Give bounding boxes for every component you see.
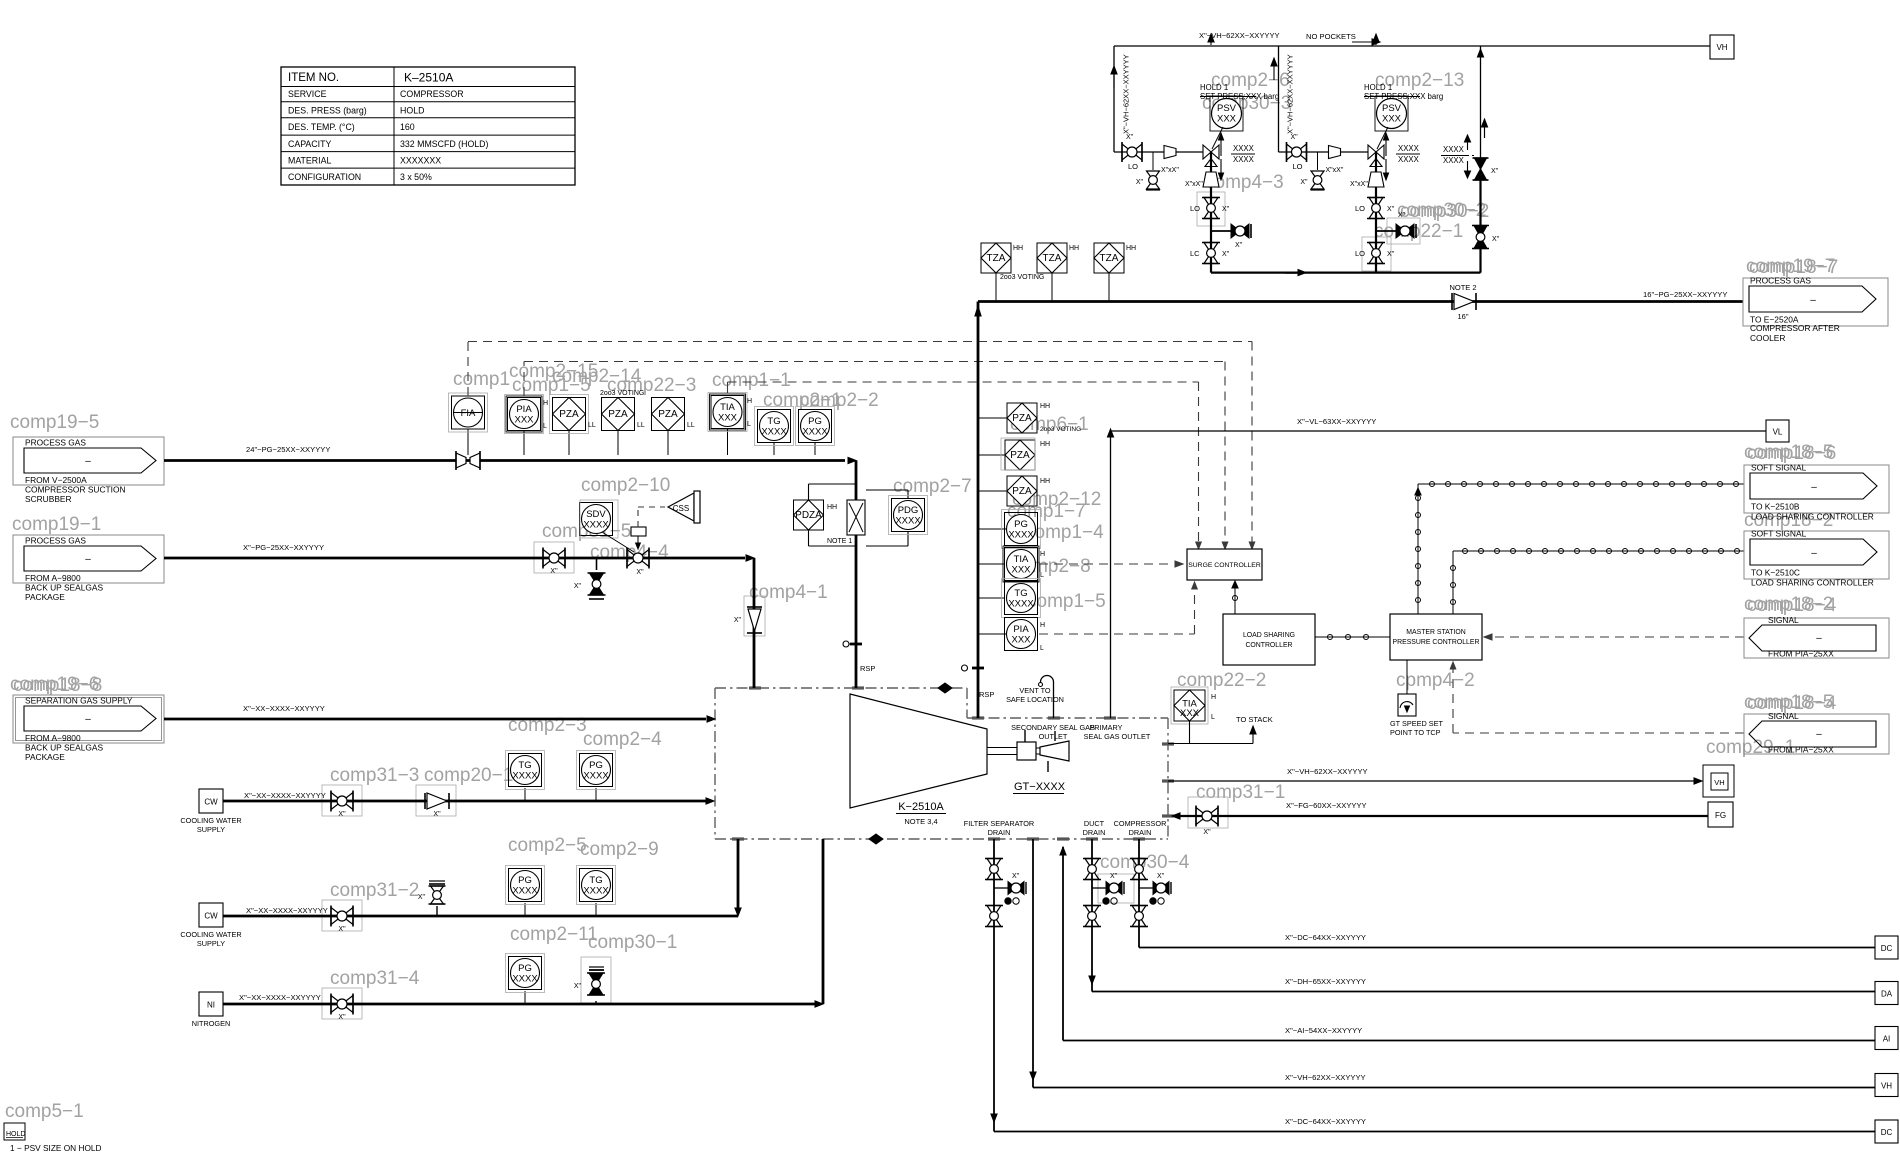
signal dashed bus line 1 FIA to surge controller	[467, 342, 469, 397]
instrument PZA HH discharge 1	[978, 417, 1008, 419]
svg-text:PZA: PZA	[608, 409, 628, 420]
svg-text:2oo3 VOTING: 2oo3 VOTING	[1040, 426, 1081, 433]
signal dashed PIA to surge controller	[1039, 633, 1195, 635]
svg-text:XXX: XXX	[1217, 114, 1237, 125]
svg-text:HH: HH	[1040, 403, 1050, 410]
svg-text:24"−PG−25XX−XXYYYY: 24"−PG−25XX−XXYYYY	[246, 445, 330, 454]
svg-text:HH: HH	[827, 504, 837, 511]
svg-text:X"−VH−62XX−XXYYYY: X"−VH−62XX−XXYYYY	[1285, 1073, 1366, 1082]
check valve 16in NOTE 2	[1451, 293, 1453, 310]
svg-text:X": X"	[550, 568, 558, 575]
NC valve comp30-1 on nitrogen stub	[595, 1001, 597, 1004]
wire 24in process gas suction line	[164, 459, 845, 462]
svg-text:comp1−4: comp1−4	[1025, 522, 1104, 543]
svg-text:PROCESS GAS: PROCESS GAS	[1750, 276, 1811, 286]
svg-text:FG: FG	[1715, 811, 1726, 820]
svg-text:–: –	[85, 456, 91, 467]
off-page connector SOFT SIGNAL TO K-2510C	[1744, 531, 1889, 579]
boundary diamond marker bottom	[869, 834, 883, 844]
instrument PG XXXX suction	[814, 442, 816, 455]
compressor K-2510A body	[850, 694, 987, 808]
svg-text:VH: VH	[1716, 43, 1727, 52]
wire VL vent line from primary seal gas outlet	[1110, 431, 1112, 718]
svg-text:K–2510A: K–2510A	[404, 71, 453, 85]
svg-text:L: L	[543, 423, 547, 430]
drain dual block valves x994	[993, 839, 995, 945]
svg-text:DUCT: DUCT	[1084, 819, 1105, 828]
svg-text:X"xX": X"xX"	[1185, 181, 1203, 188]
wire cooling water supply line 2	[223, 915, 738, 918]
instrument TG XXXX discharge	[978, 597, 1005, 599]
gas turbine GT-XXXX	[1040, 741, 1069, 761]
svg-text:LL: LL	[637, 422, 645, 429]
svg-text:X": X"	[1222, 206, 1230, 213]
utility box CW cooling water supply 1	[199, 789, 223, 813]
svg-text:SERVICE: SERVICE	[288, 89, 327, 99]
svg-text:comp5−1: comp5−1	[5, 1101, 84, 1122]
VH off-page box top right	[1710, 35, 1734, 59]
lower block globe valve on leg	[1369, 243, 1383, 254]
svg-text:SDV: SDV	[586, 509, 606, 520]
svg-text:X": X"	[1300, 179, 1308, 186]
off-page connector SIGNAL FROM PIA-25XX 2	[1744, 714, 1889, 754]
svg-text:HOLD 1: HOLD 1	[1200, 83, 1228, 92]
wire recycle header	[1211, 272, 1481, 274]
svg-text:CSS: CSS	[673, 504, 689, 513]
3-way PSV inlet valve	[1368, 145, 1376, 159]
svg-text:X"−FG−60XX−XXYYYY: X"−FG−60XX−XXYYYY	[1286, 801, 1367, 810]
svg-text:comp18−8: comp18−8	[13, 675, 102, 696]
svg-text:XXXX: XXXX	[1443, 145, 1465, 154]
FG off-page box	[1708, 802, 1733, 827]
relief valve stub on cw2	[436, 906, 438, 916]
svg-text:comp31−4: comp31−4	[330, 968, 420, 989]
signal dashed bus line 3 TIA to surge controller	[727, 382, 729, 393]
svg-text:XXXX: XXXX	[1398, 144, 1420, 153]
svg-text:TZA: TZA	[987, 253, 1006, 264]
instrument TIA XXX discharge	[978, 563, 1005, 565]
svg-text:TIA: TIA	[1014, 554, 1029, 565]
svg-text:comp4−4: comp4−4	[590, 542, 669, 563]
svg-text:1 − PSV SIZE ON HOLD: 1 − PSV SIZE ON HOLD	[10, 1143, 102, 1153]
svg-text:comp30−2: comp30−2	[1400, 201, 1489, 222]
svg-text:K−2510A: K−2510A	[898, 801, 944, 813]
drain line 2 vh	[1032, 839, 1034, 1088]
svg-text:2oo3 VOTING: 2oo3 VOTING	[600, 390, 644, 397]
svg-text:comp18−4: comp18−4	[1747, 595, 1837, 616]
svg-text:HH: HH	[1013, 245, 1023, 252]
svg-text:X"−VH−62XX−XXYYYY: X"−VH−62XX−XXYYYY	[1287, 767, 1368, 776]
svg-text:comp2−5: comp2−5	[508, 835, 587, 856]
svg-text:comp2−2: comp2−2	[800, 390, 879, 411]
svg-text:XXX: XXX	[718, 413, 738, 424]
utility box NI nitrogen	[199, 992, 223, 1016]
wire VH line from package to VH box	[1168, 780, 1694, 782]
svg-text:X"−VL−63XX−XXYYYY: X"−VL−63XX−XXYYYY	[1297, 417, 1376, 426]
svg-text:–: –	[1811, 548, 1817, 559]
svg-text:16"−PG−25XX−XXYYYY: 16"−PG−25XX−XXYYYY	[1643, 290, 1727, 299]
svg-text:XXX: XXX	[514, 415, 534, 426]
svg-text:X": X"	[1136, 179, 1144, 186]
instrument PZA 2 2oo3 voting	[617, 430, 619, 455]
annotation box comp30-4 NC valve duct drain	[1098, 874, 1134, 903]
svg-text:comp31−2: comp31−2	[330, 880, 419, 901]
svg-text:comp2−7: comp2−7	[893, 476, 972, 497]
data link MSPC riser 2 with circles	[1452, 551, 1454, 614]
right leg block globe valve	[1474, 226, 1487, 238]
svg-text:GT SPEED SET: GT SPEED SET	[1390, 719, 1444, 728]
svg-text:–: –	[1816, 729, 1822, 740]
svg-text:XXX: XXX	[1382, 114, 1402, 125]
svg-text:comp30−4: comp30−4	[1100, 852, 1190, 873]
svg-text:XXXX: XXXX	[512, 886, 538, 897]
wire seal gas drop into package	[753, 558, 756, 688]
instrument PZA HH discharge 3	[978, 490, 1008, 492]
gate valve comp31-4	[331, 996, 342, 1013]
svg-text:H: H	[1040, 551, 1045, 558]
instrument PZA 3	[667, 430, 669, 455]
instrument TG XXXX suction	[773, 442, 775, 455]
svg-text:PRESSURE CONTROLLER: PRESSURE CONTROLLER	[1393, 639, 1480, 646]
svg-text:X"−VH−62XX−XXYYYY: X"−VH−62XX−XXYYYY	[1122, 54, 1131, 134]
svg-text:HH: HH	[1040, 441, 1050, 448]
svg-text:PACKAGE: PACKAGE	[25, 752, 65, 762]
svg-text:BACK UP SEALGAS: BACK UP SEALGAS	[25, 583, 103, 593]
svg-text:FROM A−9800: FROM A−9800	[25, 733, 81, 743]
gate valve LO	[1122, 144, 1132, 160]
svg-text:LOAD SHARING CONTROLLER: LOAD SHARING CONTROLLER	[1751, 512, 1874, 522]
svg-text:DES. PRESS (barg): DES. PRESS (barg)	[288, 106, 367, 116]
PSV relief valve	[1210, 96, 1243, 131]
svg-text:COMPRESSOR: COMPRESSOR	[400, 89, 464, 99]
gate valve comp31-2	[331, 908, 342, 925]
svg-text:PSV: PSV	[1217, 103, 1237, 114]
instrument TZA 2	[1051, 272, 1053, 302]
instrument TG XXXX cw2	[595, 903, 597, 916]
svg-text:comp1: comp1	[453, 369, 510, 390]
wire nitrogen riser into package	[822, 839, 825, 1004]
svg-text:X"−XX−XXXX−XXYYYY: X"−XX−XXXX−XXYYYY	[243, 704, 325, 713]
instrument PIA XXX discharge	[978, 633, 1006, 635]
svg-text:L: L	[1040, 572, 1044, 579]
svg-text:NOTE 2: NOTE 2	[1449, 283, 1476, 292]
svg-text:332 MMSCFD (HOLD): 332 MMSCFD (HOLD)	[400, 139, 489, 149]
svg-text:H: H	[1211, 694, 1216, 701]
svg-text:X"−VH−62XX−XXYYYY: X"−VH−62XX−XXYYYY	[1286, 54, 1295, 134]
svg-text:X"xX": X"xX"	[1326, 167, 1344, 174]
instrument PG XXXX discharge	[978, 528, 1006, 530]
solenoid signal dashed to CSS	[637, 507, 639, 527]
svg-text:X"−XX−XXXX−XXYYYY: X"−XX−XXXX−XXYYYY	[246, 906, 328, 915]
svg-text:PIA: PIA	[516, 404, 532, 415]
svg-text:DRAIN: DRAIN	[988, 828, 1011, 837]
svg-text:XXXXXXX: XXXXXXX	[400, 156, 441, 166]
wire separation gas supply line	[164, 718, 706, 721]
svg-text:XXXX: XXXX	[1008, 530, 1034, 541]
svg-text:FROM A−9800: FROM A−9800	[25, 573, 81, 583]
svg-text:XXXX: XXXX	[583, 520, 609, 531]
gate valve comp31-5	[543, 550, 554, 567]
instrument PDG XXXX	[866, 489, 908, 491]
svg-text:X"−DH−65XX−XXYYYY: X"−DH−65XX−XXYYYY	[1285, 977, 1366, 986]
svg-text:CW: CW	[204, 912, 218, 921]
wire cooling water supply line 1	[223, 800, 706, 803]
annotation box comp31-5	[534, 542, 574, 573]
svg-text:comp18−6: comp18−6	[1747, 443, 1836, 464]
branch NC valve on leg	[1211, 230, 1233, 232]
GT speed set point symbol comp4-2	[1406, 660, 1408, 694]
svg-text:LOAD SHARING CONTROLLER: LOAD SHARING CONTROLLER	[1751, 578, 1874, 588]
off-page connector SEPARATION GAS SUPPLY	[13, 695, 164, 743]
svg-text:PIA: PIA	[1013, 624, 1029, 635]
svg-text:comp20−1: comp20−1	[424, 765, 513, 786]
svg-text:HH: HH	[1040, 478, 1050, 485]
off-page connector PROCESS GAS FROM V-2500A	[13, 437, 164, 485]
svg-text:comp22−2: comp22−2	[1177, 670, 1266, 691]
svg-text:SEAL GAS OUTLET: SEAL GAS OUTLET	[1084, 732, 1151, 741]
svg-text:comp1−1: comp1−1	[712, 370, 791, 391]
svg-text:cpmp4−2: cpmp4−2	[1396, 670, 1475, 691]
svg-text:L: L	[1211, 714, 1215, 721]
svg-text:PG: PG	[808, 416, 822, 427]
instrument FIA	[467, 429, 469, 455]
package boundary K-2510A	[715, 687, 967, 689]
svg-text:SIGNAL: SIGNAL	[1768, 615, 1799, 625]
svg-text:FROM PIA−25XX: FROM PIA−25XX	[1768, 649, 1834, 659]
data link LSC to surge controller	[1234, 583, 1236, 614]
svg-text:MASTER STATION: MASTER STATION	[1406, 629, 1465, 636]
svg-text:HOLD: HOLD	[6, 1131, 25, 1138]
drain dual block valves x1139	[1138, 839, 1140, 945]
svg-text:TG: TG	[518, 760, 531, 771]
svg-text:AI: AI	[1883, 1035, 1891, 1044]
instrument PIA XXX	[523, 431, 525, 455]
svg-text:PDG: PDG	[898, 505, 919, 516]
svg-text:PZA: PZA	[1010, 450, 1030, 461]
wire nitrogen supply line	[223, 1003, 817, 1006]
svg-text:XXXX: XXXX	[512, 974, 538, 985]
wire discharge header 16in	[978, 300, 1743, 303]
svg-text:DC: DC	[1881, 1128, 1893, 1137]
svg-text:XXXX: XXXX	[1233, 155, 1255, 164]
svg-text:XXX: XXX	[1011, 565, 1031, 576]
svg-text:HOLD 1: HOLD 1	[1364, 83, 1392, 92]
instrument TG XXXX cw1	[524, 788, 526, 801]
svg-text:VH: VH	[1714, 778, 1724, 787]
svg-text:COOLING WATER: COOLING WATER	[180, 816, 241, 825]
svg-text:TO STACK: TO STACK	[1236, 715, 1273, 724]
orifice tap lower line	[809, 545, 857, 547]
svg-text:CONTROLLER: CONTROLLER	[1245, 642, 1292, 649]
svg-text:PG: PG	[1014, 519, 1028, 530]
branch NC valve on leg	[1376, 230, 1398, 232]
svg-text:H: H	[747, 398, 752, 405]
svg-text:PDZA: PDZA	[795, 510, 822, 521]
signal dashed from PIA-25XX to MSPC	[1492, 636, 1744, 638]
svg-text:PZA: PZA	[1012, 486, 1032, 497]
svg-text:L: L	[1040, 645, 1044, 652]
wire train line y152 x1278.5	[1279, 151, 1377, 153]
annotation box train2 lower LO valve	[1362, 237, 1391, 271]
signal dashed from PIA-25XX riser to MSPC bottom	[1453, 732, 1744, 734]
gearbox	[1017, 742, 1036, 760]
restriction orifice NOTE 1	[847, 500, 865, 535]
svg-text:PZA: PZA	[1012, 413, 1032, 424]
svg-text:LO: LO	[1355, 204, 1365, 213]
svg-text:L: L	[747, 421, 751, 428]
annotation box comp4-1 check valve	[744, 596, 765, 636]
drain globe valve under train	[1152, 152, 1154, 170]
drain globe valve under train	[1317, 152, 1319, 170]
wire seal gas supply line from A-9800	[164, 557, 745, 560]
svg-text:X": X"	[734, 617, 742, 624]
HOLD note box	[4, 1123, 25, 1140]
svg-text:PG: PG	[518, 963, 532, 974]
svg-text:COOLER: COOLER	[1750, 333, 1785, 343]
svg-text:XXX: XXX	[1180, 708, 1200, 719]
svg-text:X": X"	[1222, 251, 1230, 258]
off-page connector PROCESS GAS TO E-2520A	[1743, 278, 1888, 326]
svg-text:SOFT SIGNAL: SOFT SIGNAL	[1751, 529, 1807, 539]
wire PSV leg down	[1375, 152, 1377, 273]
svg-text:H: H	[1040, 622, 1045, 629]
instrument PZA 1	[568, 430, 570, 455]
svg-text:X": X"	[1126, 134, 1134, 141]
svg-text:SCRUBBER: SCRUBBER	[25, 494, 72, 504]
svg-text:LL: LL	[687, 422, 695, 429]
svg-text:X"xX": X"xX"	[1161, 167, 1179, 174]
svg-text:SUPPLY: SUPPLY	[197, 825, 225, 834]
svg-text:VENT TO: VENT TO	[1019, 686, 1051, 695]
data link to K-2510C soft signal	[1453, 550, 1744, 552]
svg-text:X"xX": X"xX"	[1350, 181, 1368, 188]
svg-text:PROCESS GAS: PROCESS GAS	[25, 438, 86, 448]
reducer below 3-way	[1203, 172, 1219, 187]
VH off-page double box	[1703, 765, 1734, 797]
wire riser 1 to flare header	[1113, 46, 1115, 152]
svg-text:comp30−1: comp30−1	[588, 932, 677, 953]
svg-text:COMPRESSOR: COMPRESSOR	[1114, 819, 1167, 828]
svg-text:X": X"	[1398, 212, 1406, 219]
SDV XXXX solenoid instrument	[580, 503, 613, 536]
svg-text:16": 16"	[1457, 312, 1468, 321]
svg-text:SOFT SIGNAL: SOFT SIGNAL	[1751, 463, 1807, 473]
svg-text:comp2−4: comp2−4	[583, 729, 662, 750]
svg-text:NITROGEN: NITROGEN	[192, 1019, 231, 1028]
right leg NC valve	[1475, 158, 1487, 169]
svg-text:NOTE 3,4: NOTE 3,4	[904, 817, 937, 826]
svg-text:NOTE 1: NOTE 1	[827, 538, 852, 545]
wire discharge riser from package	[977, 302, 980, 719]
svg-text:X": X"	[1203, 829, 1211, 836]
svg-text:ITEM NO.: ITEM NO.	[288, 72, 339, 84]
svg-text:X": X"	[636, 569, 644, 576]
svg-text:SEPARATION GAS SUPPLY: SEPARATION GAS SUPPLY	[25, 696, 133, 706]
svg-text:POINT TO TCP: POINT TO TCP	[1390, 728, 1441, 737]
instrument PZA HH discharge 2	[978, 454, 1008, 456]
wire right leg thick segment	[1479, 180, 1481, 273]
instrument PDZA HH	[808, 484, 810, 500]
reducer on train	[1164, 146, 1176, 159]
gate valve comp31-3	[331, 793, 342, 810]
svg-text:X"−AI−54XX−XXYYYY: X"−AI−54XX−XXYYYY	[1285, 1026, 1362, 1035]
svg-text:X": X"	[433, 811, 441, 818]
svg-text:GT−XXXX: GT−XXXX	[1014, 781, 1066, 793]
wire FG fuel gas line to package	[1180, 815, 1708, 817]
boundary diamond marker top	[938, 683, 952, 693]
svg-text:DA: DA	[1881, 990, 1893, 999]
svg-text:–: –	[85, 554, 91, 565]
signal dashed TIA to surge controller	[1039, 563, 1172, 565]
svg-text:–: –	[1810, 295, 1816, 306]
svg-text:NO POCKETS: NO POCKETS	[1306, 32, 1356, 41]
svg-text:comp31−1: comp31−1	[1196, 782, 1285, 803]
svg-text:MATERIAL: MATERIAL	[288, 156, 331, 166]
utility box CW cooling water supply 2	[199, 903, 223, 927]
svg-text:RSP: RSP	[860, 664, 875, 673]
drain dual block valves x1092	[1091, 839, 1093, 945]
wire cooling water return drop from package	[737, 839, 740, 908]
svg-text:XXXX: XXXX	[802, 427, 828, 438]
svg-text:CAPACITY: CAPACITY	[288, 139, 331, 149]
instrument PG XXXX cw1	[595, 788, 597, 801]
wire train line y152 x1114	[1114, 151, 1211, 153]
svg-text:RSP: RSP	[979, 690, 994, 699]
annotation box comp22-1 NC valve	[1387, 218, 1420, 244]
svg-text:XXXX: XXXX	[1443, 156, 1465, 165]
svg-text:X": X"	[574, 983, 582, 990]
svg-text:LO: LO	[1355, 249, 1365, 258]
svg-text:TIA: TIA	[720, 402, 735, 413]
svg-text:SAFE LOCATION: SAFE LOCATION	[1006, 695, 1064, 704]
svg-text:COOLING WATER: COOLING WATER	[180, 930, 241, 939]
svg-text:XXXX: XXXX	[761, 427, 787, 438]
wire to stack	[1168, 743, 1253, 745]
svg-text:X": X"	[1012, 873, 1020, 880]
svg-text:comp2−9: comp2−9	[580, 839, 659, 860]
wire PSV leg down	[1210, 152, 1212, 273]
instrument TZA 1 2oo3	[995, 272, 997, 302]
svg-text:FILTER SEPARATOR: FILTER SEPARATOR	[964, 819, 1034, 828]
svg-text:X": X"	[574, 583, 582, 590]
svg-text:LO: LO	[1128, 162, 1138, 171]
svg-text:NI: NI	[207, 1001, 215, 1010]
off-page connector PROCESS GAS FROM A-9800	[13, 535, 164, 583]
wire right leg from flare header	[1480, 46, 1482, 273]
svg-text:XXXX: XXXX	[583, 886, 609, 897]
svg-text:VH: VH	[1881, 1082, 1892, 1091]
CSS symbol	[668, 493, 694, 521]
svg-text:SUPPLY: SUPPLY	[197, 939, 225, 948]
gate valve comp31-1	[1196, 808, 1207, 825]
svg-text:comp4−1: comp4−1	[749, 582, 828, 603]
svg-text:FROM V−2500A: FROM V−2500A	[25, 475, 87, 485]
svg-text:CW: CW	[204, 798, 218, 807]
svg-text:X"−DC−64XX−XXYYYY: X"−DC−64XX−XXYYYY	[1285, 1117, 1366, 1126]
instrument PG XXXX nitrogen	[524, 991, 526, 1004]
svg-text:X": X"	[1492, 236, 1500, 243]
PSV relief valve	[1375, 96, 1408, 131]
svg-text:OUTLET: OUTLET	[1039, 732, 1068, 741]
svg-text:H: H	[543, 400, 548, 407]
instrument TZA 3	[1108, 272, 1110, 302]
svg-text:3 x 50%: 3 x 50%	[400, 172, 432, 182]
vent valve NC below seal gas line	[596, 558, 598, 570]
wire riser 2 to flare header	[1278, 46, 1280, 152]
flow element venturi	[456, 453, 466, 468]
surge controller box	[1187, 549, 1262, 580]
svg-text:–: –	[85, 714, 91, 725]
